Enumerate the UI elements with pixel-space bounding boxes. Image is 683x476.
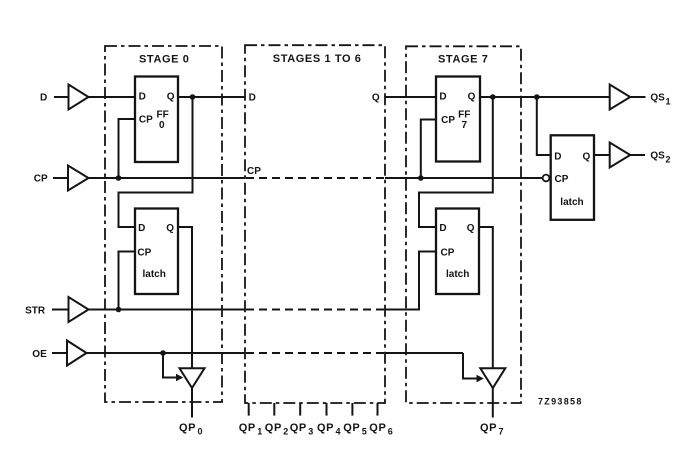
buffer D input: [69, 85, 89, 110]
wire QP0 output stem: [191, 388, 193, 418]
svg-text:CP: CP: [555, 174, 569, 185]
flip-flop FF0: [135, 77, 178, 163]
wire STR rail dashed across stages 1 to 6: [246, 309, 385, 311]
wire QP5 stub: [351, 403, 353, 416]
svg-text:Q: Q: [166, 223, 174, 234]
wire FF0 CP pin to CP rail: [119, 119, 136, 178]
svg-text:QP: QP: [317, 422, 334, 434]
svg-text:latch: latch: [560, 197, 583, 208]
svg-text:0: 0: [159, 120, 165, 131]
wire latch7 Q to QP7 buffer: [479, 227, 493, 368]
svg-text:1: 1: [257, 427, 262, 437]
wire CP label to buffer: [53, 177, 68, 179]
node CP to FF0 junction: [116, 175, 122, 181]
svg-text:latch: latch: [143, 269, 166, 280]
svg-text:D: D: [439, 223, 446, 234]
svg-text:QP: QP: [265, 422, 282, 434]
wire latch0 CP pin to STR rail: [119, 252, 136, 310]
svg-text:D: D: [40, 92, 47, 103]
svg-text:CP: CP: [441, 248, 455, 259]
svg-text:STAGE 0: STAGE 0: [139, 54, 189, 66]
wire stages 1 to 6 Q to FF7 D pin: [385, 96, 436, 98]
svg-text:QP: QP: [369, 422, 386, 434]
wire latch0 Q to QP0 buffer: [178, 227, 192, 368]
wire STR rail stage 0: [89, 309, 246, 311]
wire CP rail stage 7 to QS2 latch: [385, 177, 543, 179]
wire OE rail dashed across stages 1 to 6: [246, 352, 385, 354]
wire D label to buffer: [54, 96, 68, 98]
wire CP rail dashed across stages 1 to 6: [246, 177, 385, 179]
wire QP4 stub: [326, 403, 328, 416]
svg-text:STAGES 1 TO 6: STAGES 1 TO 6: [273, 53, 362, 65]
svg-text:QS: QS: [650, 93, 665, 104]
wire OE label to buffer: [52, 352, 67, 354]
wire STR rail stage 7: [385, 252, 436, 310]
svg-text:5: 5: [362, 427, 367, 437]
svg-text:Q: Q: [583, 152, 591, 163]
svg-text:1: 1: [666, 96, 671, 106]
svg-text:D: D: [439, 92, 446, 103]
node STR to latch0 junction: [116, 307, 122, 313]
svg-text:STR: STR: [25, 306, 46, 317]
wire QP2 stub: [273, 403, 275, 416]
wire FF7 CP pin to CP rail: [421, 120, 436, 179]
node FF0 Q branch junction: [190, 94, 196, 100]
wire QP3 stub: [299, 403, 301, 416]
node FF7 Q branch junction: [490, 94, 496, 100]
svg-text:CP: CP: [139, 115, 153, 126]
wire FF7 Q down to latch7 D pin: [419, 97, 493, 227]
svg-text:CP: CP: [137, 248, 151, 259]
svg-text:QS: QS: [650, 151, 665, 162]
wire D buffer to FF0 D pin: [89, 96, 136, 98]
svg-text:6: 6: [388, 427, 393, 437]
svg-text:Q: Q: [372, 93, 380, 104]
flip-flop FF7: [436, 77, 480, 162]
svg-text:2: 2: [666, 154, 671, 164]
node QS2 latch D branch junction: [534, 94, 540, 100]
inverting bubble on QS2 latch CP: [543, 175, 550, 182]
buffer QS1 output: [610, 85, 631, 110]
wire QS2 latch D from QS1 rail: [537, 97, 551, 155]
svg-text:0: 0: [198, 427, 203, 437]
buffer QP0 three-state: [180, 368, 205, 388]
wire QP1 stub: [248, 403, 250, 416]
svg-text:QP: QP: [343, 422, 360, 434]
svg-text:Q: Q: [467, 223, 475, 234]
buffer QS2 output: [610, 143, 631, 168]
latch latch7: [436, 209, 479, 295]
svg-text:QP: QP: [480, 422, 497, 434]
wire FF7 Q output to QS1 buffer: [480, 96, 610, 98]
svg-text:latch: latch: [446, 269, 469, 280]
node CP to FF7 junction: [418, 175, 424, 181]
stage 7 boundary box: [406, 46, 521, 403]
svg-text:CP: CP: [34, 174, 48, 185]
latch latch0: [135, 209, 178, 295]
buffer STR input: [69, 297, 89, 322]
wire QP7 output stem: [492, 388, 494, 418]
svg-text:STAGE 7: STAGE 7: [438, 54, 488, 66]
wire FF0 Q output to stages 1 to 6: [178, 96, 245, 98]
wire QP0 enable from OE rail with arrow: [163, 353, 177, 378]
svg-text:D: D: [554, 152, 561, 163]
wire QP7 enable from OE rail with arrow: [463, 353, 477, 379]
svg-text:7Z93858: 7Z93858: [538, 397, 583, 407]
node OE to QP0 enable junction: [160, 350, 166, 356]
svg-text:OE: OE: [32, 349, 47, 360]
svg-text:7: 7: [462, 120, 468, 131]
svg-text:Q: Q: [167, 92, 175, 103]
svg-text:QP: QP: [239, 422, 256, 434]
buffer QP7 three-state: [480, 368, 505, 388]
svg-text:QP: QP: [179, 422, 196, 434]
buffer CP input: [68, 166, 89, 191]
stages 1 to 6 boundary box: [245, 45, 385, 403]
svg-text:3: 3: [308, 427, 313, 437]
svg-text:CP: CP: [441, 115, 455, 126]
svg-text:D: D: [249, 93, 256, 104]
svg-text:2: 2: [283, 427, 288, 437]
wire QS2 buffer to label: [630, 154, 645, 156]
wire STR label to buffer: [52, 309, 68, 311]
svg-text:Q: Q: [468, 92, 476, 103]
svg-text:D: D: [138, 223, 145, 234]
svg-text:7: 7: [499, 427, 504, 437]
latch QS2 latch: [551, 135, 594, 220]
svg-text:QP: QP: [290, 422, 307, 434]
buffer OE input: [67, 341, 87, 366]
wire OE rail stage 7: [385, 352, 463, 354]
wire QS1 buffer to label: [630, 96, 645, 98]
wire QS2 latch Q to QS2 buffer: [594, 154, 610, 156]
wire CP rail stage 0: [89, 177, 246, 179]
svg-text:4: 4: [336, 427, 341, 437]
stage 0 boundary box: [105, 46, 222, 402]
wire QP6 stub: [377, 403, 379, 416]
wire FF0 Q down to latch0 D pin: [119, 97, 193, 227]
wire OE rail stage 0: [87, 352, 246, 354]
svg-text:D: D: [139, 92, 146, 103]
svg-text:CP: CP: [247, 166, 261, 177]
